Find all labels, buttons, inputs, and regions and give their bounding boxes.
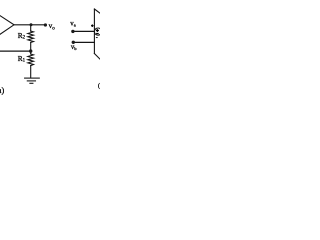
svg-text:(a): (a) [0,86,4,95]
svg-text:va: va [70,21,75,28]
svg-text:vb: vb [71,44,77,51]
svg-text:(b): (b) [98,83,100,90]
